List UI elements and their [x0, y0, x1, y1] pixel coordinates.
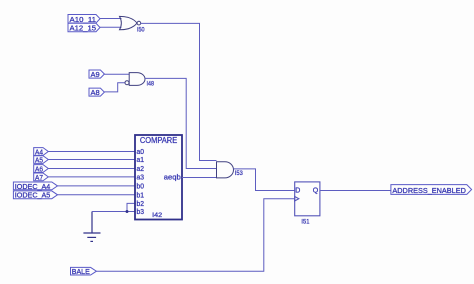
svg-text:IODEC_A5: IODEC_A5 — [15, 191, 51, 200]
wire IODEC_A5 to b1 — [58, 194, 136, 196]
svg-text:A10_11: A10_11 — [70, 15, 97, 24]
input port BALE — [71, 267, 97, 275]
svg-text:I51: I51 — [301, 218, 309, 225]
svg-text:A5: A5 — [35, 155, 43, 164]
wire A7 to a3 — [48, 176, 135, 178]
input port A9 — [89, 70, 104, 78]
svg-text:I50: I50 — [137, 27, 145, 34]
wire BALE to I51 clock — [96, 199, 294, 272]
svg-text:D: D — [295, 188, 300, 195]
comparator block I42 — [135, 135, 182, 220]
svg-text:b0: b0 — [137, 182, 145, 191]
input port A10_11 — [68, 15, 100, 24]
svg-text:a1: a1 — [137, 155, 145, 164]
input port A7 — [34, 173, 49, 181]
junction dot — [126, 210, 129, 213]
wire A6 to a2 — [48, 168, 135, 170]
input port A12_15 — [68, 23, 100, 31]
svg-text:A9: A9 — [91, 70, 100, 79]
AND gate I53 — [217, 162, 234, 178]
wire junction to b2 — [127, 203, 136, 211]
wire I48 output to I53 middle input — [145, 78, 217, 168]
svg-text:I42: I42 — [152, 212, 162, 219]
wire IODEC_A4 to b0 — [58, 185, 136, 187]
input port A6 — [34, 165, 49, 173]
wire A10_11 to I50 — [100, 18, 122, 20]
input port IODEC_A5 — [13, 191, 57, 199]
svg-text:A7: A7 — [35, 173, 43, 182]
svg-text:b3: b3 — [137, 207, 145, 216]
svg-text:A12_15: A12_15 — [70, 24, 97, 33]
input port IODEC_A4 — [13, 182, 57, 190]
svg-text:BALE: BALE — [72, 269, 90, 276]
svg-text:A8: A8 — [91, 88, 100, 97]
ground — [83, 212, 100, 242]
svg-text:Q: Q — [313, 188, 319, 195]
svg-text:a3: a3 — [137, 173, 145, 182]
svg-text:I53: I53 — [235, 170, 243, 177]
wire A9 to I48 — [104, 73, 129, 75]
svg-text:IODEC_A4: IODEC_A4 — [15, 182, 51, 191]
svg-text:COMPARE: COMPARE — [140, 136, 177, 145]
AND gate I48 (one inverted input) — [125, 73, 145, 86]
D latch I51 — [295, 182, 320, 216]
wire A12_15 to I50 — [100, 26, 122, 28]
wire A5 to a1 — [48, 159, 135, 161]
wire A4 to a0 — [48, 151, 135, 153]
input port A5 — [34, 156, 49, 164]
wire I51 Q to ADDRESS_ENABLED — [320, 190, 391, 192]
svg-text:ADDRESS_ENABLED: ADDRESS_ENABLED — [392, 186, 466, 195]
output port ADDRESS_ENABLED — [391, 185, 472, 195]
NOR gate I50 — [120, 16, 141, 29]
wire A8 to I48 inverted input — [104, 83, 125, 92]
svg-text:I48: I48 — [147, 80, 155, 87]
wire ground to b3 — [92, 211, 136, 213]
wire aeqb to I53 bottom input — [182, 177, 217, 179]
svg-text:aeqb: aeqb — [164, 173, 181, 182]
wire I53 output to I51 D input — [234, 169, 295, 191]
input port A8 — [89, 88, 104, 96]
input port A4 — [34, 148, 49, 156]
wire I50 output to I53 top input — [141, 23, 217, 160]
